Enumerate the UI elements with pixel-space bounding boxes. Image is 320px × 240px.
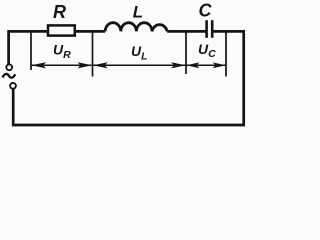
source terminal (bottom circle)	[10, 83, 16, 89]
arrowhead U_R left	[31, 62, 46, 68]
tick: right of U_C	[225, 32, 227, 77]
svg-text:C: C	[199, 0, 213, 20]
AC source tilde	[3, 74, 16, 78]
inductor L1 (4 arcs)	[105, 23, 167, 32]
tick: between U_R and U_L	[92, 32, 94, 77]
arrowhead U_R right	[78, 62, 93, 68]
capacitor C1 left plate	[205, 20, 208, 38]
source terminal (top circle)	[6, 64, 12, 70]
dimension line U_C	[187, 64, 226, 66]
arrowhead U_L left	[93, 62, 108, 68]
resistor R1 (box)	[48, 25, 75, 35]
dimension line U_L	[93, 64, 186, 66]
tick: between U_L and U_C	[185, 32, 187, 75]
arrowhead U_C right	[213, 62, 226, 68]
tick: left of U_R	[30, 32, 32, 71]
arrowhead U_L right	[171, 62, 186, 68]
dimension line U_R	[32, 64, 92, 66]
svg-text:L: L	[133, 2, 143, 21]
wire: capacitor to right side, right vertical, bottom wire, lower-left vertical	[13, 31, 244, 125]
wire: resistor to inductor	[75, 30, 105, 33]
capacitor C1 right plate	[211, 20, 214, 38]
arrowhead U_C left	[186, 62, 199, 68]
wire: inductor to capacitor	[167, 30, 206, 33]
svg-text:R: R	[53, 2, 66, 22]
wire: left vertical (top part) + top wire to resistor	[9, 31, 48, 64]
